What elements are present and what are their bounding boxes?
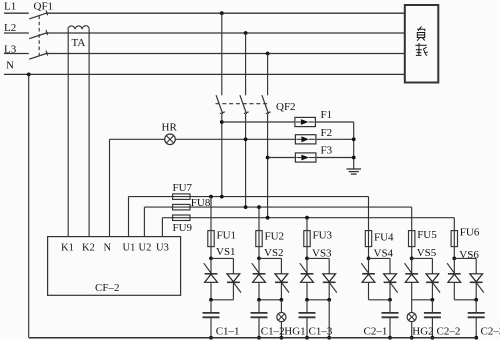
svg-text:QF2: QF2 [276, 101, 296, 113]
node row C / QF2-3 [266, 216, 270, 220]
node F1 junction [220, 120, 224, 124]
capacitor at x=476.2 [468, 300, 485, 338]
wire F3 to bus [316, 157, 354, 159]
lamp HR [165, 134, 176, 145]
svg-text:C1–1: C1–1 [216, 325, 240, 337]
label HR [162, 121, 178, 133]
fuse F2 [295, 135, 316, 144]
svg-text:FU5: FU5 [417, 229, 437, 241]
controller CF-2 box [48, 237, 181, 296]
label QF1 [34, 1, 54, 13]
wire HR row to F2 [175, 138, 295, 140]
breaker QF1 pole 3 blade [29, 51, 48, 60]
svg-text:C2–2: C2–2 [437, 325, 461, 337]
node branch 2 bottom R [280, 298, 284, 302]
svg-text:C2–3: C2–3 [481, 325, 500, 337]
svg-text:C1–3: C1–3 [309, 325, 333, 337]
wire branch 3 right to bus [328, 300, 330, 338]
node L2 tap [244, 31, 248, 35]
thyristor VS3 left SCR [300, 258, 314, 282]
wire L2 left stub [4, 32, 29, 34]
wire branch 4 bottom connector [369, 299, 391, 301]
node branch 1 top [209, 257, 213, 261]
capacitor at x=432.4 [424, 300, 441, 338]
thyristor VS4 right SCR [384, 274, 398, 293]
svg-text:C1–2: C1–2 [261, 325, 285, 337]
node branch 3 bottom R [327, 298, 331, 302]
svg-text:L1: L1 [4, 1, 16, 13]
node N tap [27, 73, 31, 77]
label HG1 [284, 325, 305, 337]
node F3 collector [352, 156, 356, 160]
label VS4 [374, 248, 394, 260]
wire branch 6 left leg [453, 282, 455, 300]
label C1-2 [261, 325, 285, 337]
wire branch 3 bottom connector [307, 299, 329, 301]
wire branch 4 right leg [389, 282, 391, 300]
label L1 [4, 1, 16, 13]
label FU4 [374, 232, 394, 244]
svg-text:F1: F1 [321, 109, 333, 121]
node bus x=259.0 [257, 336, 261, 340]
node F2 junction [244, 137, 248, 141]
node bus x=211.0 [209, 336, 213, 340]
terminal U2 [139, 243, 152, 254]
label QF2 [276, 101, 296, 113]
thyristor VS6 right SCR [470, 274, 484, 293]
svg-text:L2: L2 [4, 22, 16, 34]
wire branch 1 bottom connector [211, 299, 233, 301]
wire QF2 pole1 lower [221, 114, 223, 197]
wire branch 4 left leg [368, 282, 370, 300]
wire branch 5 right leg [431, 282, 433, 300]
wire bottom bus [29, 337, 477, 339]
breaker QF1 pole 1 blade [29, 10, 48, 19]
wire branch 4 right drop [389, 258, 391, 273]
wire QF2 pole3 upper [267, 54, 269, 96]
thyristor VS6 left SCR [447, 258, 461, 282]
wire row A (L1 bus) [129, 196, 369, 198]
wire TA secondary to K2 [88, 29, 90, 236]
svg-text:VS2: VS2 [264, 247, 284, 259]
node F3 junction [266, 156, 270, 160]
wire branch 1 drop [210, 197, 212, 259]
thyristor VS4 left SCR [361, 258, 375, 282]
wire QF2 pole3 lower [267, 114, 269, 218]
node L1 tap [220, 11, 224, 15]
fuse FU7 [173, 194, 190, 200]
svg-text:N: N [6, 59, 14, 71]
label FU8 [191, 197, 211, 209]
wire F2 to bus [316, 138, 354, 140]
wire N [4, 73, 405, 75]
label VS2 [264, 247, 284, 259]
label FU6 [460, 227, 480, 239]
label L2 [4, 22, 16, 34]
thyristor VS5 left SCR [405, 258, 419, 282]
svg-text:U3: U3 [156, 243, 169, 254]
node bus x=307.0 [305, 336, 309, 340]
wire branch 6 top connector [454, 257, 476, 259]
svg-text:U1: U1 [123, 243, 136, 254]
fuse FU3 [304, 231, 310, 247]
wire branch 3 top connector [307, 257, 329, 259]
wire branch 2 right leg [280, 282, 282, 300]
wire branch 4 top connector [369, 257, 391, 259]
wire N riser [109, 139, 111, 236]
wire branch 5 right drop [431, 258, 433, 273]
label F1 [321, 109, 333, 121]
svg-text:VS1: VS1 [216, 246, 236, 258]
label CF-2 [95, 282, 119, 294]
wire branch 1 left leg [210, 282, 212, 300]
wire branch 1 right drop [232, 258, 234, 273]
wire L3 left stub [4, 53, 29, 55]
thyristor VS2 left SCR [252, 258, 266, 282]
breaker QF1 pole 2 blade [29, 30, 48, 39]
thyristor VS2 right SCR [275, 274, 289, 293]
fuse FU5 [409, 231, 415, 247]
breaker QF2 linkage (dashed) [216, 103, 269, 105]
wire QF2 pole2 lower [245, 114, 247, 207]
svg-text:VS4: VS4 [374, 248, 394, 260]
node bus x=476.2 [474, 336, 478, 340]
thyristor VS1 right SCR [227, 274, 241, 293]
label FU7 [173, 182, 193, 194]
wire N drop [28, 74, 30, 337]
node branch 2 top [257, 257, 261, 261]
thyristor VS1 left SCR [204, 258, 218, 282]
node row B / FU2 [257, 205, 261, 209]
svg-text:N: N [104, 243, 112, 254]
node bus x=281.4 [280, 336, 284, 340]
breaker QF2 pole 3 blade [262, 95, 271, 114]
node branch 3 bottom L [305, 298, 309, 302]
label FU5 [417, 229, 437, 241]
svg-text:HG1: HG1 [284, 325, 305, 337]
label C2-1 [364, 325, 388, 337]
label FU9 [173, 222, 193, 234]
breaker QF2 pole 1 blade [216, 95, 225, 114]
terminal K2 [82, 243, 95, 254]
wire branch 1 right leg [232, 282, 234, 300]
label HG2 [412, 325, 433, 337]
label TA [72, 37, 86, 49]
node branch 3 top [305, 257, 309, 261]
node branch 6 bottom R [474, 298, 478, 302]
terminal U1 [123, 243, 136, 254]
node branch 1 bottom L [209, 298, 213, 302]
thyristor VS5 right SCR [426, 274, 440, 293]
node branch 6 top [452, 257, 456, 261]
svg-text:K1: K1 [61, 243, 74, 254]
capacitor at x=307.0 [299, 300, 316, 338]
fuse FU9 [173, 215, 190, 221]
wire branch 3 left leg [306, 282, 308, 300]
fuse FU6 [451, 231, 457, 247]
terminal K1 [61, 243, 74, 254]
svg-text:QF1: QF1 [34, 1, 54, 13]
label L3 [4, 43, 17, 55]
wire U2 riser [143, 207, 145, 237]
node F2 collector [352, 137, 356, 141]
svg-text:HR: HR [162, 121, 178, 133]
svg-text:CF–2: CF–2 [95, 282, 119, 294]
node bus x=329.2 [327, 336, 331, 340]
svg-text:FU4: FU4 [374, 232, 394, 244]
thyristor VS3 right SCR [323, 274, 337, 293]
label F2 [321, 127, 333, 139]
node row A / FU1 [209, 195, 213, 199]
terminal U3 [156, 243, 169, 254]
lamp at x=281.4 [277, 300, 286, 338]
label F3 [321, 145, 333, 157]
wire L2 to load [46, 32, 405, 34]
label VS6 [459, 249, 479, 261]
wire branch 2 bottom connector [259, 299, 281, 301]
svg-text:U2: U2 [139, 243, 152, 254]
svg-text:K2: K2 [82, 243, 95, 254]
node bus x=432.4 [431, 336, 435, 340]
wire branch 6 drop [453, 218, 455, 259]
svg-text:F2: F2 [321, 127, 333, 139]
svg-text:FU8: FU8 [191, 197, 211, 209]
capacitor at x=390.0 [382, 300, 399, 338]
wire L3 to load [46, 53, 405, 55]
lamp at x=411.7 [407, 300, 416, 338]
wire branch 3 right drop [328, 258, 330, 273]
wire branch 3 drop [306, 218, 308, 259]
label FU2 [265, 231, 285, 243]
wire F1 to bus [315, 121, 353, 123]
fuse FU4 [365, 231, 371, 247]
wire TA secondary to K1 [67, 29, 69, 236]
wire U1 riser [128, 197, 130, 237]
label N [6, 59, 14, 71]
wire QF2 pole1 upper [221, 13, 223, 95]
wire branch 1 top connector [211, 257, 233, 259]
wire U3 riser [161, 218, 163, 237]
svg-text:VS3: VS3 [312, 248, 332, 260]
svg-text:TA: TA [72, 37, 86, 49]
wire branch 5 drop [411, 207, 413, 258]
svg-text:C2–1: C2–1 [364, 325, 388, 337]
ground [347, 169, 362, 174]
node branch 5 top [410, 257, 414, 261]
svg-text:F3: F3 [321, 145, 333, 157]
wire F1 row [222, 121, 295, 123]
node branch 2 bottom L [257, 298, 261, 302]
fuse FU2 [256, 231, 262, 247]
wire branch 6 bottom connector [454, 299, 476, 301]
breaker QF1 linkage (dashed) [38, 16, 40, 59]
label VS3 [312, 248, 332, 260]
capacitor at x=211.0 [203, 300, 220, 338]
load box (负载) [405, 5, 439, 83]
node row B / QF2-2 [244, 205, 248, 209]
svg-text:FU1: FU1 [217, 229, 237, 241]
node L3 tap [266, 52, 270, 56]
label C2-2 [437, 325, 461, 337]
wire F-row collector [353, 122, 355, 169]
fuse F1 [295, 117, 316, 126]
svg-text:FU6: FU6 [460, 227, 480, 239]
wire row C (L3 bus) [162, 217, 454, 219]
wire branch 2 right drop [280, 258, 282, 273]
label VS5 [417, 247, 437, 259]
terminal N [104, 243, 112, 254]
svg-text:FU2: FU2 [265, 231, 285, 243]
svg-text:HG2: HG2 [412, 325, 433, 337]
wire QF2 pole2 upper [245, 33, 247, 95]
node row C / FU3 [305, 216, 309, 220]
fuse F3 [295, 153, 316, 162]
node bus x=411.7 [410, 336, 414, 340]
fuse FU8 [173, 204, 190, 210]
wire branch 5 bottom connector [412, 299, 433, 301]
svg-text:VS5: VS5 [417, 247, 437, 259]
fuse FU1 [208, 231, 214, 247]
label C1-3 [309, 325, 333, 337]
wire branch 5 left leg [411, 282, 413, 300]
node branch 4 bottom R [388, 298, 392, 302]
CT TA winding [68, 26, 89, 30]
wire L1 to load [46, 12, 405, 14]
wire branch 4 drop [368, 197, 370, 259]
capacitor at x=259.0 [251, 300, 268, 338]
svg-text:FU7: FU7 [173, 182, 193, 194]
wire branch 2 drop [258, 207, 260, 258]
node branch 5 bottom R [431, 298, 435, 302]
label C2-3 [481, 325, 500, 337]
wire branch 3 right leg [328, 282, 330, 300]
wire F3 row [268, 157, 296, 159]
svg-text:FU3: FU3 [313, 229, 333, 241]
svg-text:FU9: FU9 [173, 222, 193, 234]
label VS1 [216, 246, 236, 258]
wire branch 6 right leg [475, 282, 477, 300]
wire branch 5 top connector [412, 257, 433, 259]
wire branch 2 left leg [258, 282, 260, 300]
wire branch 2 top connector [259, 257, 281, 259]
label C1-1 [216, 325, 240, 337]
label FU3 [313, 229, 333, 241]
node branch 4 top [367, 257, 371, 261]
label FU1 [217, 229, 237, 241]
node bus x=390.0 [388, 336, 392, 340]
wire L1 left stub [4, 12, 29, 14]
wire branch 6 right drop [475, 258, 477, 273]
wire row B (L2 bus) [144, 206, 411, 208]
node row A / QF2-1 [220, 195, 224, 199]
breaker QF2 pole 2 blade [240, 95, 249, 114]
wire HR row left [110, 138, 165, 140]
